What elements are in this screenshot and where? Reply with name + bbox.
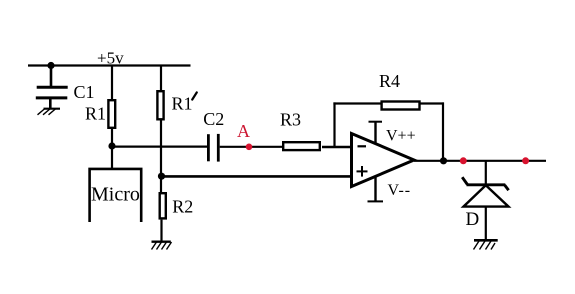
wire R3 to inverting input: [322, 146, 351, 149]
svg-text:+5v: +5v: [97, 48, 124, 67]
wire +5v rail: [28, 64, 191, 66]
junction dot node R2/op-amp +: [158, 173, 165, 180]
wire feedback top right: [420, 102, 445, 104]
wire zener bottom lead: [485, 206, 487, 240]
resistor R1: [108, 100, 115, 128]
ground (C1): [38, 109, 61, 115]
svg-text:A: A: [237, 121, 250, 141]
wire feedback down to output: [442, 102, 444, 161]
svg-text:C2: C2: [203, 109, 224, 129]
svg-text:R4: R4: [379, 71, 400, 91]
svg-text:R3: R3: [280, 110, 301, 130]
svg-text:R1: R1: [172, 94, 193, 114]
resistor R2: [160, 193, 166, 218]
wire zener top lead: [485, 161, 487, 184]
op-amp minus sign: [358, 145, 367, 147]
junction dot rail/C1: [47, 62, 54, 69]
svg-text:R2: R2: [172, 197, 193, 217]
wire R1' top lead: [160, 66, 162, 91]
svg-text:Micro: Micro: [91, 184, 140, 206]
resistor R4: [382, 102, 420, 110]
svg-text:V--: V--: [388, 182, 411, 199]
wire output: [414, 160, 546, 162]
resistor R3: [283, 142, 320, 150]
wire non-inverting input from R2 node: [162, 175, 352, 178]
wire R1 top lead: [111, 66, 113, 100]
node A dot (red): [246, 144, 253, 151]
resistor R1': [157, 91, 163, 119]
capacitor C2: [208, 134, 218, 162]
node dot (red) output right: [522, 157, 529, 164]
wire R1 bottom lead to Micro: [111, 129, 113, 170]
microphone Micro box: [90, 169, 142, 222]
svg-text:R1: R1: [85, 103, 106, 123]
ground (D): [474, 240, 498, 249]
wire C1 top lead: [50, 66, 53, 88]
junction dot node R1/C2: [108, 142, 115, 149]
node dot (red) output left: [460, 157, 467, 164]
svg-text:C1: C1: [74, 82, 95, 102]
capacitor C1: [36, 87, 68, 98]
op-amp V-- pin: [374, 176, 376, 201]
wire R2 bottom lead: [160, 220, 162, 242]
svg-text:V++: V++: [386, 128, 416, 145]
op-amp U1: [352, 122, 416, 202]
wire node to C2: [112, 146, 207, 148]
op-amp V++ pin: [374, 122, 376, 145]
svg-text:D: D: [466, 209, 480, 230]
wire C1 bottom lead: [49, 98, 52, 109]
wire R1' bottom to R2 top: [160, 121, 162, 193]
wire C2 to R3: [220, 146, 284, 148]
op-amp plus sign: [357, 170, 368, 172]
label R1 prime tick: [192, 92, 197, 99]
wire feedback up: [333, 102, 335, 147]
ground (R2): [152, 242, 172, 250]
wire feedback top left: [333, 102, 382, 104]
zener diode D: [462, 177, 508, 206]
junction dot output/feedback: [440, 157, 447, 164]
